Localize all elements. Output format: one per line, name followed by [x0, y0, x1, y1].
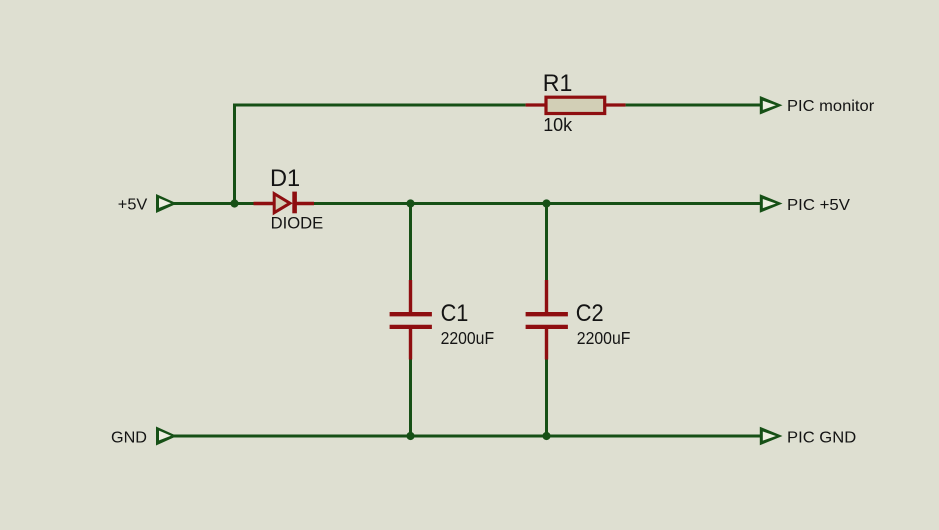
capacitor C1 bottom plate	[390, 325, 432, 329]
terminal GND (pin symbol)	[156, 427, 177, 446]
junction: +5V net at C1	[406, 199, 414, 207]
terminal PIC +5V (pin symbol)	[760, 194, 783, 213]
resistor R1 pin 1 (left)	[526, 103, 546, 106]
wire: D1 cathode to PIC +5V terminal	[314, 202, 761, 205]
wire: vertical branch from +5V node up to R1 row	[233, 104, 236, 204]
svg-text:R1: R1	[543, 70, 573, 97]
diode D1 cathode bar	[292, 192, 297, 214]
wire: +5V terminal to D1 anode	[174, 202, 254, 205]
svg-text:PIC +5V: PIC +5V	[787, 197, 850, 214]
svg-text:PIC GND: PIC GND	[787, 430, 856, 447]
capacitor C2 bottom plate	[526, 325, 568, 329]
svg-text:+5V: +5V	[118, 196, 148, 213]
resistor R1 body	[546, 97, 605, 113]
capacitor C2 pin 2 (bottom)	[545, 328, 548, 360]
resistor R1 pin 2 (right)	[605, 103, 626, 106]
wire: R1 row horizontal, corner to R1 pin 1	[233, 104, 526, 107]
junction: +5V net at C2	[542, 199, 550, 207]
wire: R1 pin 2 to PIC monitor terminal	[626, 104, 762, 107]
junction: +5V net branch	[230, 199, 238, 207]
svg-text:PIC monitor: PIC monitor	[787, 98, 875, 115]
terminal PIC monitor (pin symbol)	[760, 96, 783, 115]
svg-text:D1: D1	[270, 165, 300, 192]
svg-text:DIODE: DIODE	[271, 214, 324, 233]
wire: +5V net down to C2 top pin	[545, 202, 548, 280]
diode D1 pin 1 (anode)	[254, 202, 275, 205]
diode D1 pin 2 (cathode)	[295, 202, 314, 205]
capacitor C1 pin 1 (top)	[409, 280, 412, 313]
wire: C1 bottom pin to GND net	[409, 360, 412, 438]
terminal PIC GND (pin symbol)	[760, 427, 783, 446]
wire: C2 bottom pin to GND net	[545, 360, 548, 438]
svg-text:C1: C1	[441, 300, 469, 327]
svg-text:2200uF: 2200uF	[441, 328, 495, 348]
svg-text:10k: 10k	[543, 115, 573, 135]
svg-text:2200uF: 2200uF	[577, 328, 631, 348]
wire: GND terminal to PIC GND terminal	[174, 435, 762, 438]
junction: GND net at C2	[542, 432, 550, 440]
svg-text:C2: C2	[576, 300, 604, 327]
svg-text:GND: GND	[111, 430, 147, 447]
capacitor C2 top plate	[526, 312, 568, 316]
capacitor C2 pin 1 (top)	[545, 280, 548, 313]
diode D1 body (anode triangle)	[274, 194, 290, 213]
wire: +5V net down to C1 top pin	[409, 202, 412, 280]
capacitor C1 top plate	[390, 312, 432, 316]
capacitor C1 pin 2 (bottom)	[409, 328, 412, 360]
terminal +5V (pin symbol)	[156, 194, 177, 213]
junction: GND net at C1	[406, 432, 414, 440]
